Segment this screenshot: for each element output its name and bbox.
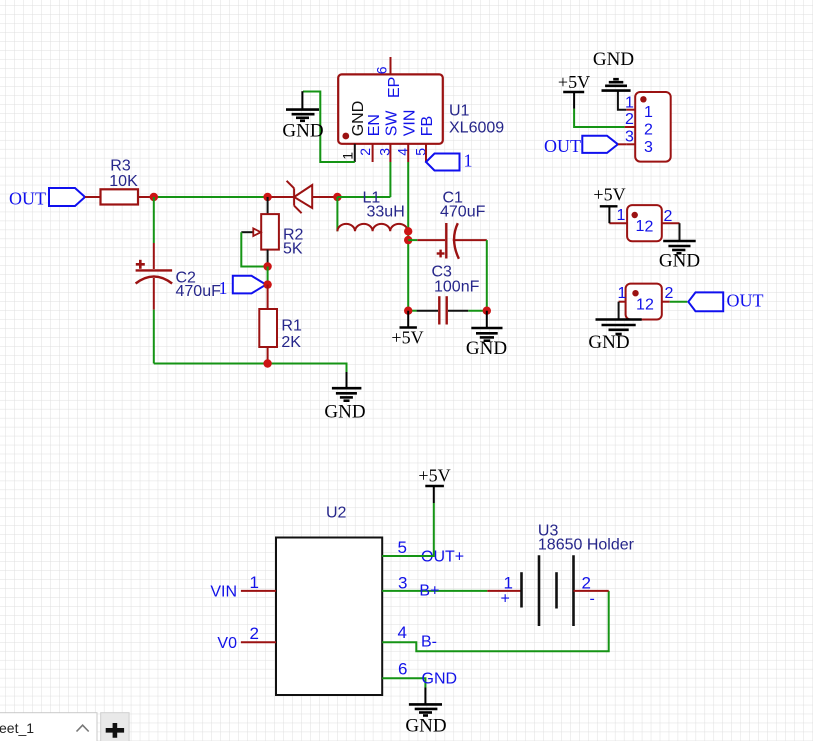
svg-text:GND: GND — [422, 671, 458, 688]
wire VIN column — [407, 162, 409, 311]
svg-text:+5V: +5V — [418, 466, 450, 486]
junction gnd node — [483, 307, 491, 315]
net flag 1 (FB pin) — [426, 151, 473, 171]
svg-text:1: 1 — [219, 278, 228, 298]
inductor L1 33uH — [337, 190, 407, 232]
wire pin4 to battery pin2 (return) — [382, 591, 609, 651]
ground (below U2 pin6) — [405, 688, 446, 737]
ground (bottom of divider) — [324, 372, 365, 423]
ground (below P2 pin2) — [659, 241, 700, 272]
svg-text:GND: GND — [659, 251, 700, 272]
svg-text:1: 1 — [464, 151, 473, 171]
svg-text:5K: 5K — [283, 241, 303, 258]
pin 4 stub — [407, 144, 409, 162]
svg-text:1: 1 — [618, 285, 627, 302]
svg-text:FB: FB — [419, 116, 436, 136]
wire pin5 to +5V — [382, 503, 434, 556]
pin2 stub — [662, 301, 670, 303]
pin1 stub — [619, 301, 626, 303]
pin 1 VIN — [241, 590, 276, 592]
power flag +5V (near C3) — [391, 311, 423, 348]
svg-text:1: 1 — [644, 104, 653, 121]
plates — [520, 572, 523, 607]
svg-text:2: 2 — [645, 297, 654, 314]
svg-text:2: 2 — [625, 111, 634, 128]
svg-text:GND: GND — [588, 332, 629, 353]
svg-text:10K: 10K — [109, 173, 138, 190]
svg-text:GND: GND — [324, 402, 365, 423]
svg-text:-: - — [590, 591, 595, 608]
capacitor C3 100nF — [408, 264, 487, 325]
svg-text:2: 2 — [250, 624, 259, 643]
svg-text:V0: V0 — [217, 635, 237, 652]
svg-text:+5V: +5V — [558, 72, 590, 92]
svg-text:1: 1 — [340, 152, 356, 160]
wire P1 pin1 to ground (black) — [618, 92, 626, 110]
wire node to R2 (black) — [267, 197, 269, 214]
pin1 stub — [626, 109, 635, 111]
svg-text:XL6009: XL6009 — [449, 120, 504, 137]
wire +5V to P1 pin2 — [574, 109, 625, 127]
wire C1 right down to gnd rail — [486, 240, 488, 311]
svg-text:OUT: OUT — [727, 291, 764, 311]
junction +5V node — [404, 307, 412, 315]
wire diode node to SW column — [337, 196, 390, 198]
svg-text:GND: GND — [282, 121, 323, 142]
svg-text:100nF: 100nF — [434, 279, 480, 296]
svg-text:VIN: VIN — [210, 584, 237, 601]
svg-text:470uF: 470uF — [176, 283, 222, 300]
net flag 1 (feedback node) — [219, 276, 267, 298]
svg-text:EN: EN — [366, 114, 383, 136]
svg-text:OUT: OUT — [9, 189, 46, 209]
junction at R3 output — [150, 193, 158, 201]
net flag OUT (left input) — [9, 188, 85, 209]
potentiometer R2 5K — [241, 214, 303, 266]
header P3 (2-pin) — [618, 284, 674, 320]
junction at diode cathode node — [263, 193, 271, 201]
junction diode anode node — [333, 193, 341, 201]
junction R2 bottom — [263, 262, 271, 270]
pin1 stub — [609, 222, 627, 224]
svg-text:5: 5 — [398, 538, 407, 557]
wire P3 pin1 down to ground (black) — [618, 302, 620, 320]
bottom rail wire — [154, 364, 347, 373]
svg-text:EP: EP — [386, 77, 403, 98]
svg-text:3: 3 — [398, 574, 407, 593]
wire R2 to flag node — [267, 267, 269, 285]
wire node down to C2 — [153, 197, 155, 243]
wire C2 to bottom rail — [153, 310, 155, 364]
svg-text:eet_1: eet_1 — [0, 720, 34, 736]
svg-text:VIN: VIN — [402, 110, 419, 137]
junction R1 bottom — [263, 359, 271, 367]
wire node to diode — [154, 196, 268, 198]
svg-text:2: 2 — [645, 219, 654, 236]
svg-text:B+: B+ — [419, 583, 439, 600]
pin 1 stub (black) — [354, 144, 356, 162]
pin 5 stub — [425, 144, 427, 162]
ground (top-left of U1) — [282, 91, 323, 141]
svg-text:6: 6 — [398, 660, 407, 679]
svg-text:GND: GND — [593, 49, 634, 70]
battery U3 18650 Holder — [487, 523, 634, 627]
svg-text:GND: GND — [466, 338, 507, 359]
svg-text:1: 1 — [250, 573, 259, 592]
svg-text:6: 6 — [374, 66, 390, 74]
svg-text:GND: GND — [350, 101, 367, 137]
svg-text:OUT: OUT — [544, 136, 581, 156]
svg-text:B-: B- — [421, 634, 437, 651]
pin 3 stub — [389, 144, 391, 162]
power flag +5V (P1 pin2) — [558, 72, 590, 109]
wire flag to R3 — [85, 196, 101, 198]
svg-text:R1: R1 — [281, 318, 302, 335]
svg-text:GND: GND — [405, 716, 446, 737]
sheet tab bar — [0, 713, 129, 741]
capacitor C2 470uF — [136, 243, 221, 310]
IC U2 — [210, 505, 464, 696]
pin 2 stub — [574, 590, 609, 592]
junction L1 / VIN — [404, 227, 412, 235]
resistor R3 — [101, 158, 139, 205]
svg-text:3: 3 — [625, 129, 634, 146]
net flag OUT (P3 pin2) — [688, 291, 763, 312]
pin 1 stub — [487, 590, 521, 592]
svg-text:2: 2 — [665, 285, 674, 302]
capacitor C1 470uF — [408, 190, 487, 259]
ground (right of C3) — [466, 311, 507, 359]
svg-text:SW: SW — [384, 110, 401, 137]
svg-text:2: 2 — [357, 148, 373, 156]
resistor R1 2K — [259, 285, 302, 364]
svg-text:470uF: 470uF — [440, 204, 486, 221]
pin2 stub — [625, 126, 636, 128]
svg-text:U1: U1 — [449, 103, 470, 120]
pin2 stub — [662, 222, 680, 224]
svg-text:4: 4 — [398, 623, 407, 642]
svg-text:3: 3 — [644, 139, 653, 156]
header P2 (2-pin) — [609, 205, 679, 241]
wire P3 pin2 to OUT flag — [670, 301, 688, 303]
power flag +5V (P2 pin1) — [593, 185, 625, 224]
svg-text:+5V: +5V — [391, 328, 423, 348]
power flag +5V (above U2) — [418, 466, 450, 504]
pin 2 V0 — [241, 641, 276, 643]
svg-text:2K: 2K — [281, 334, 301, 351]
svg-text:1: 1 — [617, 207, 626, 224]
wire U1 pin1 to ground — [303, 92, 355, 163]
svg-text:1: 1 — [636, 218, 645, 235]
svg-text:U2: U2 — [326, 505, 347, 522]
svg-text:+5V: +5V — [593, 185, 625, 205]
svg-text:1: 1 — [636, 297, 645, 314]
wire SW pin down — [389, 162, 391, 197]
wire pin6 to ground — [382, 678, 425, 687]
svg-text:+: + — [501, 591, 510, 608]
junction flag node — [263, 280, 271, 288]
wire diode node down to L1 — [336, 197, 338, 231]
ground (below P3 pin1) — [588, 320, 641, 354]
svg-text:18650 Holder: 18650 Holder — [538, 537, 635, 554]
IC U1 XL6009 — [338, 57, 504, 162]
pin3 stub — [626, 143, 635, 145]
svg-text:2: 2 — [644, 122, 653, 139]
svg-text:R3: R3 — [110, 158, 131, 175]
ground (above P1, inverted) — [593, 49, 634, 91]
wire pin3 to battery pin1 — [382, 590, 487, 592]
diode (zener) — [268, 181, 338, 213]
pin 2 stub — [372, 144, 374, 162]
junction C1 branch — [404, 236, 412, 244]
wire R3 to node — [137, 196, 154, 198]
header P1 (3-pin) — [625, 92, 671, 162]
svg-text:33uH: 33uH — [367, 204, 405, 221]
net flag OUT (P1 pin3) — [544, 136, 626, 156]
wire P2 pin2 down to ground (black) — [679, 223, 681, 241]
